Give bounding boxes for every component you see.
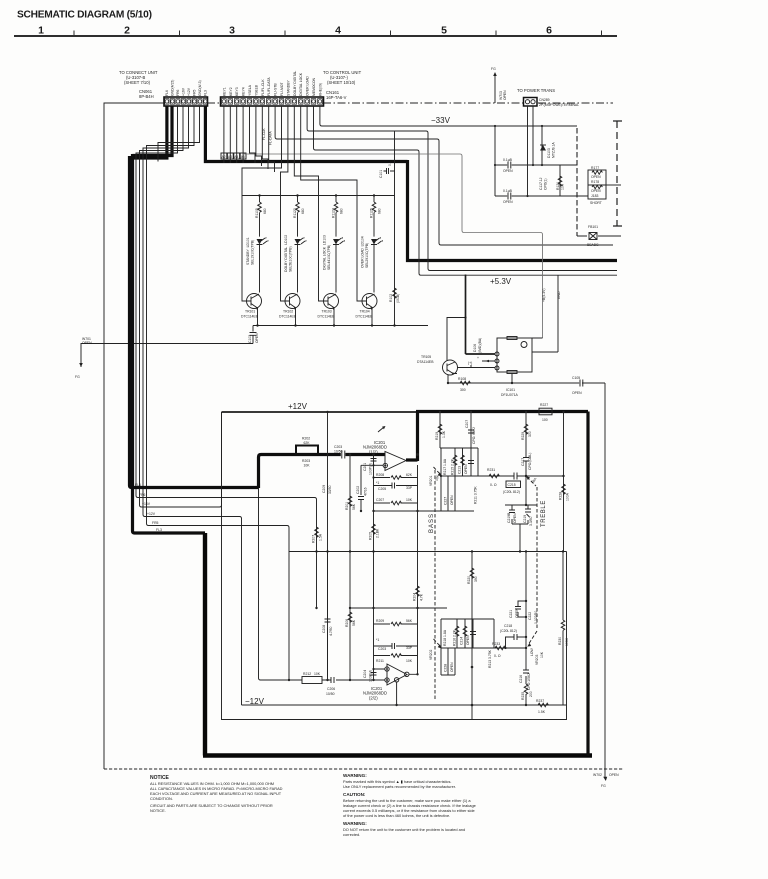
svg-text:WARNING:: WARNING: [343, 821, 367, 826]
svg-text:R108: R108 [458, 377, 466, 381]
chassis dash line across connectors [207, 102, 613, 104]
svg-text:C219: C219 [523, 515, 527, 523]
op-amp IC201 (2/2) NJM2068DD [363, 664, 419, 706]
treble top caps C219B / C219 [505, 504, 537, 552]
svg-text:680: 680 [378, 208, 382, 214]
svg-text:OPEN: OPEN [503, 169, 513, 173]
svg-text:DOLBY DIGITAL: DOLBY DIGITAL [293, 71, 297, 96]
svg-text:R1123: R1123 [293, 208, 297, 218]
resistor R233 0 ohm [492, 642, 527, 658]
capacitor C218 (C20L 812) [500, 624, 527, 648]
resistor R1105 680 [255, 196, 267, 237]
svg-text:−33V: −33V [431, 116, 451, 125]
svg-text:C105: C105 [572, 376, 580, 380]
svg-text:−12V: −12V [245, 697, 265, 706]
capacitor C205 33P [374, 481, 418, 491]
svg-text:10K: 10K [304, 464, 311, 468]
diode D1103 MTZJ9.1A [540, 142, 556, 158]
svg-text:33P: 33P [406, 486, 413, 490]
svg-text:R204: R204 [413, 593, 417, 601]
svg-text:1: 1 [38, 25, 44, 37]
C117 CPO label [539, 177, 548, 190]
svg-text:R178: R178 [591, 180, 599, 184]
svg-text:VR203: VR203 [535, 655, 539, 665]
svg-text:OPEN: OPEN [503, 90, 507, 100]
CN161 pin labels (rotated) [222, 71, 322, 96]
svg-text:D106: D106 [473, 344, 477, 352]
svg-text:56K: 56K [352, 619, 356, 626]
svg-text:5: 5 [441, 25, 447, 37]
R229 300 column [521, 411, 532, 505]
svg-text:OPEN: OPEN [591, 189, 601, 193]
svg-text:DTC114EB: DTC114EB [241, 315, 259, 319]
resistor R206 column x350 lower [345, 612, 356, 627]
svg-text:R219: R219 [435, 432, 439, 440]
svg-text:R235: R235 [521, 692, 525, 700]
svg-text:1BA: 1BA [531, 476, 538, 484]
resistor R202 62K / R203 10K pair on bus [296, 437, 318, 468]
svg-text:OPEN: OPEN [82, 341, 92, 345]
svg-text:C215: C215 [508, 483, 516, 487]
svg-text:10K: 10K [314, 672, 321, 676]
svg-text:56K: 56K [406, 619, 413, 623]
svg-text:0- Ω: 0- Ω [490, 483, 497, 487]
svg-text:TR103: TR103 [322, 310, 332, 314]
capacitor C209 33/50 column [322, 411, 332, 681]
transistor TR105 DTA114EB [417, 355, 458, 383]
svg-text:of the power cord is less than: of the power cord is less than 460 kohms… [343, 813, 450, 818]
svg-text:C208: C208 [322, 625, 326, 633]
svg-text:62K: 62K [406, 473, 413, 477]
inner frame rectangle [222, 412, 567, 720]
svg-text:OPEN: OPEN [466, 635, 470, 645]
resistor R231 0 ohm [478, 468, 511, 487]
svg-text:R233: R233 [492, 642, 500, 646]
svg-text:FR6: FR6 [139, 493, 146, 497]
svg-text:DO NOT return the unit to the: DO NOT return the unit to the customer u… [343, 827, 465, 832]
svg-text:R1125: R1125 [370, 208, 374, 218]
capacitor C201 100P(J) [363, 453, 383, 475]
resistor R1125 680 [370, 196, 382, 237]
svg-text:R203: R203 [302, 459, 310, 463]
svg-text:OVER LOAD LD104: OVER LOAD LD104 [361, 236, 365, 268]
svg-text:C205: C205 [378, 487, 386, 491]
svg-text:C218: C218 [504, 624, 512, 628]
bottom dashed chassis line [104, 769, 623, 777]
svg-text:VR202: VR202 [429, 650, 433, 660]
svg-text:GND(4/15): GND(4/15) [171, 80, 175, 96]
svg-text:10K: 10K [406, 659, 413, 663]
svg-text:680: 680 [263, 208, 267, 214]
svg-text:680: 680 [301, 208, 305, 214]
capacitor C208 4.7/50 column x327 [322, 552, 333, 678]
svg-text:100A: 100A [566, 492, 570, 501]
svg-text:FL6: FL6 [135, 483, 141, 487]
svg-text:R208: R208 [376, 473, 384, 477]
svg-text:C206: C206 [327, 687, 335, 691]
svg-text:R217 1.8A: R217 1.8A [443, 458, 447, 475]
resistor R121 10A [556, 176, 565, 190]
svg-text:DIGITAL LOCK: DIGITAL LOCK [299, 72, 303, 96]
svg-text:R227: R227 [540, 403, 548, 407]
capacitor C1118 OPEN (upper) [503, 158, 513, 173]
resistor R210 10K [374, 498, 418, 505]
svg-text:KHE(09): KHE(09) [318, 83, 322, 96]
svg-text:C103: C103 [248, 335, 252, 343]
svg-text:0.022/50: 0.022/50 [534, 611, 538, 624]
indicator top rail [242, 194, 395, 196]
svg-text:TR102: TR102 [283, 310, 293, 314]
transistor TR104 DTC114EB [356, 294, 378, 326]
resistor R209 56K (opamp2) [374, 619, 418, 626]
svg-text:10K: 10K [406, 498, 413, 502]
resistor R235 200 [521, 684, 533, 700]
svg-text:SEL1910C(TPB): SEL1910C(TPB) [251, 240, 255, 265]
svg-text:1.5K: 1.5K [538, 710, 546, 714]
svg-text:4.7/50: 4.7/50 [329, 626, 333, 636]
wire W701 line from CN061 left to FG [75, 103, 247, 769]
CN161 net: FL-CLK / FL-DATA rotated relabels [262, 128, 273, 145]
thick net from CN061 pin1 across to right bus [205, 106, 617, 261]
connector CN061 8P-B4H [119, 70, 208, 106]
column R204 4.7K [413, 510, 424, 608]
svg-text:CPO 1/56J: CPO 1/56J [527, 673, 531, 690]
svg-text:62K: 62K [304, 441, 311, 445]
svg-text:TR101: TR101 [245, 310, 255, 314]
svg-text:+12V: +12V [147, 512, 156, 516]
svg-text:VR201: VR201 [429, 476, 433, 486]
svg-text:OPEN: OPEN [464, 464, 468, 474]
svg-text:FL3: FL3 [204, 90, 208, 96]
svg-text:R216 2.2K: R216 2.2K [453, 629, 457, 646]
svg-text:C222: C222 [528, 612, 532, 620]
svg-text:FG: FG [491, 67, 496, 71]
bracket (to other sheet) at right edge [613, 121, 622, 226]
svg-text:2.1BK: 2.1BK [376, 528, 380, 538]
svg-text:SEL4410C(TPB): SEL4410C(TPB) [327, 245, 331, 270]
svg-text:D1103: D1103 [547, 148, 551, 158]
svg-text:100: 100 [542, 418, 548, 422]
svg-text:MEMOCON: MEMOCON [312, 77, 316, 96]
svg-text:FG: FG [601, 784, 606, 788]
svg-text:C203: C203 [334, 445, 342, 449]
svg-text:MTZJ9.1A: MTZJ9.1A [552, 142, 556, 158]
resistor R211 10K (opamp2) [374, 654, 418, 663]
svg-text:R220: R220 [467, 576, 471, 584]
BASS control dashed [429, 467, 442, 700]
R230 390 column [467, 550, 478, 719]
svg-text:OVER LOAD: OVER LOAD [306, 76, 310, 96]
connector CN289 TO POWER TRANS [517, 88, 579, 107]
svg-text:FR5: FR5 [193, 89, 197, 96]
svg-text:OPEN: OPEN [513, 513, 517, 523]
svg-text:R229: R229 [521, 432, 525, 440]
svg-text:corrected.: corrected. [343, 832, 360, 837]
svg-text:FL/-STB: FL/-STB [274, 83, 278, 96]
svg-text:KEY1: KEY1 [222, 87, 226, 96]
svg-text:C201: C201 [363, 463, 367, 471]
connector CN161 16P-TA6-V [221, 70, 362, 106]
svg-text:33P: 33P [406, 646, 413, 650]
transistor TR103 DTC114EB [318, 294, 339, 326]
wires from CN161 pins 11-14 to indicator columns [242, 106, 357, 196]
svg-text:+12V: +12V [288, 402, 308, 411]
LED LD103 DIGITAL LOCK [323, 235, 346, 292]
feed line tags [135, 483, 162, 532]
svg-text:C207: C207 [376, 498, 384, 502]
R177/R178/J183 box [588, 166, 621, 205]
svg-text:KEY2: KEY2 [229, 87, 233, 96]
svg-text:(SHEET 7/10): (SHEET 7/10) [124, 80, 151, 85]
svg-text:SEL5E10C(TPB): SEL5E10C(TPB) [289, 246, 293, 272]
capacitor C105 OPEN [572, 376, 605, 395]
svg-text:A5: A5 [241, 155, 245, 159]
svg-text:C117.1J: C117.1J [539, 177, 543, 190]
svg-text:200: 200 [529, 691, 533, 697]
thick signal bus FL6 to op-amp [259, 455, 386, 489]
upper tone cluster [435, 411, 476, 448]
svg-text:OPEN: OPEN [450, 662, 454, 672]
svg-text:STANDBY: STANDBY [286, 79, 290, 96]
svg-text:A3: A3 [228, 155, 232, 159]
svg-text:IC101: IC101 [506, 388, 515, 392]
R236 1.5K on -12V rail [536, 699, 548, 714]
svg-text:(/MD)(BA): (/MD)(BA) [478, 338, 482, 353]
svg-text:+16V: +16V [142, 502, 151, 506]
wire FG / W703 at top of power trans [491, 67, 507, 103]
svg-text:BASS: BASS [429, 513, 435, 533]
lower tone network grid [441, 619, 494, 675]
svg-text:CONDITION.: CONDITION. [150, 796, 173, 801]
svg-text:(C20L 812): (C20L 812) [500, 629, 517, 633]
junction dots on rails [416, 453, 527, 706]
svg-text:CPO. 680J: CPO. 680J [472, 427, 476, 444]
svg-text:R1105: R1105 [255, 208, 259, 218]
capacitor C202 47/16 into + input [356, 465, 374, 512]
svg-text:YSELA: YSELA [248, 84, 252, 96]
capacitor C203 33P (opamp2) [374, 638, 418, 651]
svg-text:R1124: R1124 [332, 208, 336, 218]
svg-text:R215 2.2K: R215 2.2K [451, 458, 455, 475]
svg-text:1.5A: 1.5A [319, 533, 323, 541]
op-amp IC201 (1/2) NJM2068DD [363, 440, 406, 471]
resistor R207 1.5K column x=316.5 [312, 527, 323, 609]
svg-text:R211 3.75K: R211 3.75K [474, 486, 478, 504]
svg-text:1.3K: 1.3K [442, 430, 446, 438]
svg-text:6: 6 [546, 25, 552, 37]
svg-text:3.3/50: 3.3/50 [529, 516, 533, 526]
svg-text:C216: C216 [519, 675, 523, 683]
svg-text:NOTICE.: NOTICE. [150, 808, 166, 813]
treble-low column x=526 [525, 550, 527, 705]
svg-text:YSELB: YSELB [254, 84, 258, 96]
svg-text:16P-TA6-V: 16P-TA6-V [326, 95, 347, 100]
feedback network op-amp2 rails [372, 608, 417, 681]
svg-text:R231: R231 [487, 468, 495, 472]
svg-text:SHORT: SHORT [590, 201, 602, 205]
signal flow arrow [378, 426, 386, 432]
svg-text:(2/2): (2/2) [369, 696, 378, 701]
svg-text:CAUTION:: CAUTION: [343, 792, 366, 797]
svg-text:DIGITAL LOCK LD103: DIGITAL LOCK LD103 [323, 235, 327, 270]
LED LD101 STANDBY [246, 237, 269, 293]
LED LD102 DOLBY DIGITAL [284, 235, 307, 293]
resistor R201 56K column [345, 453, 356, 681]
svg-text:FL6: FL6 [165, 90, 169, 96]
svg-text:KEY4: KEY4 [242, 87, 246, 96]
svg-text:CPO.(OBL): CPO.(OBL) [528, 453, 532, 470]
svg-text:DTA114EB: DTA114EB [417, 360, 434, 364]
svg-text:R237: R237 [536, 699, 544, 703]
svg-text:W702: W702 [593, 773, 602, 777]
TREBLE control dashed [526, 476, 547, 665]
svg-text:OPEN: OPEN [515, 608, 519, 618]
svg-text:R102: R102 [389, 294, 393, 302]
svg-text:R209: R209 [376, 619, 384, 623]
LED LD104 OVER LOAD [361, 236, 384, 292]
svg-text:TREBLE: TREBLE [541, 500, 547, 527]
svg-text:GND(4/-3): GND(4/-3) [198, 80, 202, 96]
net from CN161 pin to R102 [393, 131, 395, 327]
svg-text:FL/-MOT: FL/-MOT [280, 82, 284, 96]
svg-text:TO POWER TRANS: TO POWER TRANS [517, 88, 555, 93]
+12V top rail [222, 411, 589, 414]
svg-text:DTC114EB: DTC114EB [279, 315, 297, 319]
capacitor C103 OPEN [247, 326, 259, 344]
svg-text:(+): (+) [468, 361, 472, 365]
svg-text:C227: C227 [444, 497, 448, 505]
svg-text:DF1U071A: DF1U071A [501, 393, 519, 397]
svg-text:47/16: 47/16 [364, 487, 368, 496]
svg-text:A2: A2 [222, 155, 226, 159]
svg-text:FL3: FL3 [156, 528, 162, 532]
resistor R108 300 [447, 374, 580, 393]
CN061 wire bundle: stair turns into left bus [130, 106, 200, 531]
svg-text:+12V: +12V [187, 87, 191, 96]
svg-text:OPEN: OPEN [255, 333, 259, 343]
indicator emitter rail [253, 324, 428, 326]
svg-text:R228: R228 [559, 492, 563, 500]
svg-text:C204: C204 [363, 670, 367, 678]
svg-text:4: 4 [335, 25, 341, 37]
left bus fan-out into amp feed lines [130, 412, 317, 680]
svg-text:+5.3V: +5.3V [490, 277, 512, 286]
svg-text:C214: C214 [460, 637, 464, 645]
net: -33V line [320, 106, 577, 126]
svg-text:0- Ω: 0- Ω [494, 654, 501, 658]
CN061 pin labels (rotated) [165, 80, 208, 96]
capacitor C204 100P(J) [363, 668, 385, 682]
capacitor C215 [503, 473, 564, 495]
+5.3V block top rails (thick) [406, 259, 409, 262]
svg-text:C101: C101 [379, 170, 383, 178]
resistor R102 (0/1B) [389, 288, 400, 303]
svg-text:FR5: FR5 [152, 521, 159, 525]
svg-text:J183: J183 [591, 194, 598, 198]
+5.3V label [490, 277, 512, 286]
resistor R1124 680 [332, 196, 344, 237]
IC101 DF1U071A regulator [458, 337, 559, 398]
svg-text:CIRCUIT AND PARTS ARE SUBJECT: CIRCUIT AND PARTS ARE SUBJECT TO CHANGE … [150, 803, 273, 808]
svg-text:100K: 100K [565, 637, 569, 646]
resistor R205 2.1K column [369, 510, 380, 608]
svg-text:(C20L 812): (C20L 812) [503, 490, 520, 494]
svg-text:+B(5.3V): +B(5.3V) [542, 289, 546, 302]
svg-text:CPO(1): CPO(1) [544, 179, 548, 191]
power section wiring [494, 106, 621, 236]
R224 100A column right [558, 550, 569, 705]
svg-text:0.1µB: 0.1µB [503, 189, 513, 193]
capacitor C1119 OPEN (lower) [503, 189, 513, 204]
svg-text:FB101: FB101 [588, 225, 598, 229]
op-amp1 output to +12V thick link [406, 412, 418, 462]
resistor R208 62K [374, 473, 418, 479]
upper tone network grid [440, 448, 478, 511]
svg-text:DTC114EB: DTC114EB [318, 315, 336, 319]
title: SCHEMATIC DIAGRAM (5/10) [17, 10, 152, 21]
svg-text:C217: C217 [521, 458, 525, 466]
-12V label [245, 697, 265, 706]
svg-text:300: 300 [528, 431, 532, 437]
svg-text:2P.(M9/POWE)TERMINAL: 2P.(M9/POWE)TERMINAL [539, 103, 579, 107]
mid rail y=552 [289, 550, 567, 552]
ferrite bead FB101 BEADS [587, 225, 599, 247]
svg-text:300: 300 [460, 388, 466, 392]
svg-text:0.1µB: 0.1µB [503, 158, 513, 162]
inner nested wires lower-left [242, 488, 567, 705]
svg-text:R205: R205 [369, 532, 373, 540]
WARNING / CAUTION text block [343, 773, 476, 837]
svg-text:FG: FG [75, 375, 80, 379]
svg-text:SCHEMATIC DIAGRAM (5/10): SCHEMATIC DIAGRAM (5/10) [17, 10, 152, 21]
svg-text:FR6: FR6 [176, 89, 180, 96]
base feed mark [468, 361, 472, 368]
svg-text:2: 2 [124, 25, 130, 37]
svg-text:+: + [477, 356, 479, 360]
svg-text:R212: R212 [303, 672, 311, 676]
svg-text:R177: R177 [591, 166, 599, 170]
svg-text:OPEN: OPEN [572, 391, 582, 395]
svg-text:3: 3 [229, 25, 235, 37]
svg-text:WARNING:: WARNING: [343, 773, 367, 778]
svg-text:8P-B4H: 8P-B4H [139, 94, 154, 99]
resistor R227 100 in top rail [539, 403, 552, 422]
svg-text:10/50: 10/50 [326, 692, 335, 696]
svg-text:Use ONLY replacement parts rec: Use ONLY replacement parts recommended b… [343, 784, 456, 789]
svg-text:FL/FL-DATA: FL/FL-DATA [267, 77, 271, 96]
svg-text:LOW: LOW [530, 647, 534, 656]
capacitor C101 0.1 [379, 161, 395, 178]
feedback network op-amp1: rails [372, 455, 474, 512]
ruler line [14, 25, 617, 37]
resistor R228 100A column [559, 411, 570, 552]
svg-text:R207: R207 [312, 535, 316, 543]
svg-text:R211: R211 [376, 659, 384, 663]
net to chassis W702 [601, 383, 607, 788]
svg-text:OPEN: OPEN [503, 200, 513, 204]
svg-text:C219B: C219B [507, 512, 511, 523]
svg-text:C202: C202 [356, 486, 360, 494]
svg-text:OPEN: OPEN [609, 773, 619, 777]
svg-text:FL/FL-CLK: FL/FL-CLK [261, 79, 265, 96]
svg-text:*1: *1 [376, 481, 379, 485]
svg-text:GND: GND [557, 291, 561, 299]
svg-text:TR104: TR104 [360, 310, 370, 314]
svg-text:10/50: 10/50 [334, 450, 343, 454]
svg-text:0.1: 0.1 [388, 161, 392, 166]
+12V label [288, 402, 308, 411]
transistor TR101 DTC114EB [241, 294, 262, 326]
